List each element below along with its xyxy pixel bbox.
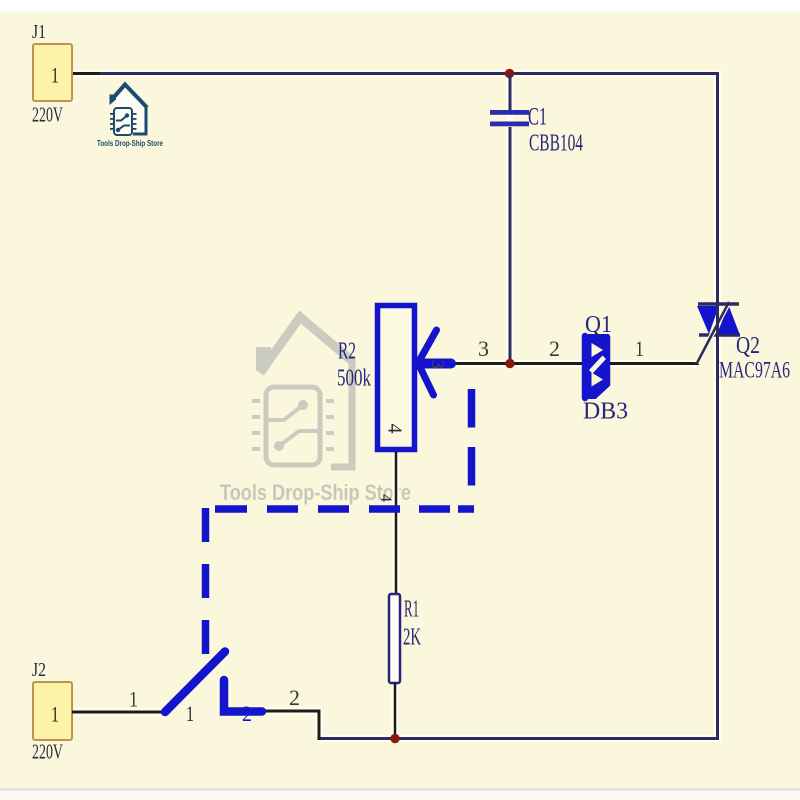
switch SW lever [165, 652, 225, 713]
capacitor C1 [490, 104, 583, 157]
svg-text:J1: J1 [32, 21, 46, 43]
junction gate [505, 359, 514, 368]
svg-text:DB3: DB3 [583, 399, 628, 425]
dashed linkage vertical left [202, 508, 210, 656]
wire R2 pin4 to R1 [395, 452, 398, 594]
connector J1 [32, 21, 72, 127]
svg-text:2: 2 [289, 685, 300, 710]
svg-text:1: 1 [186, 701, 194, 726]
svg-text:220V: 220V [32, 103, 63, 127]
svg-text:Q2: Q2 [736, 333, 760, 359]
junction top [505, 69, 514, 78]
resistor R1 [389, 594, 421, 683]
wire R1 to bottom rail [394, 683, 397, 739]
svg-text:4: 4 [377, 494, 394, 502]
svg-text:CBB104: CBB104 [529, 131, 583, 157]
wire J2 pin to switch [72, 711, 165, 714]
svg-text:1: 1 [635, 336, 644, 361]
wire step from switch to bottom rail [264, 711, 319, 740]
svg-text:Tools Drop-Ship Store: Tools Drop-Ship Store [97, 139, 163, 148]
svg-text:1: 1 [51, 63, 59, 88]
svg-text:J2: J2 [32, 659, 46, 681]
svg-text:Q1: Q1 [585, 312, 612, 338]
svg-text:2: 2 [242, 701, 252, 726]
svg-text:R2: R2 [338, 339, 356, 365]
svg-text:3: 3 [478, 336, 489, 361]
diac Q1 [583, 312, 628, 425]
svg-text:220V: 220V [32, 740, 63, 764]
switch contact bracket [224, 680, 262, 712]
wire C1 vertical [509, 75, 512, 362]
watermark logo small top-left [97, 85, 163, 149]
dashed linkage vertical right [468, 389, 476, 504]
svg-text:2: 2 [549, 336, 560, 361]
dashed linkage horizontal [215, 505, 474, 513]
triac Q2 [697, 298, 790, 383]
svg-text:C1: C1 [528, 104, 547, 131]
connector J2 [32, 659, 72, 764]
svg-text:3: 3 [428, 360, 448, 369]
svg-text:2K: 2K [403, 625, 421, 651]
svg-text:1: 1 [129, 687, 138, 712]
wire gate horizontal [455, 362, 699, 365]
svg-text:1: 1 [51, 702, 59, 727]
wire top rail from J1 to right rail [72, 74, 718, 739]
wiper arrow of R2 [418, 330, 451, 395]
potentiometer R2 [337, 306, 415, 503]
svg-text:4: 4 [383, 424, 405, 434]
junction bottom [390, 734, 399, 743]
svg-text:R1: R1 [404, 597, 419, 623]
svg-text:MAC97A6: MAC97A6 [719, 358, 790, 383]
wire halos (jpeg ringing) [74, 74, 718, 739]
watermark logo center [220, 317, 411, 505]
svg-text:500k: 500k [337, 366, 371, 392]
